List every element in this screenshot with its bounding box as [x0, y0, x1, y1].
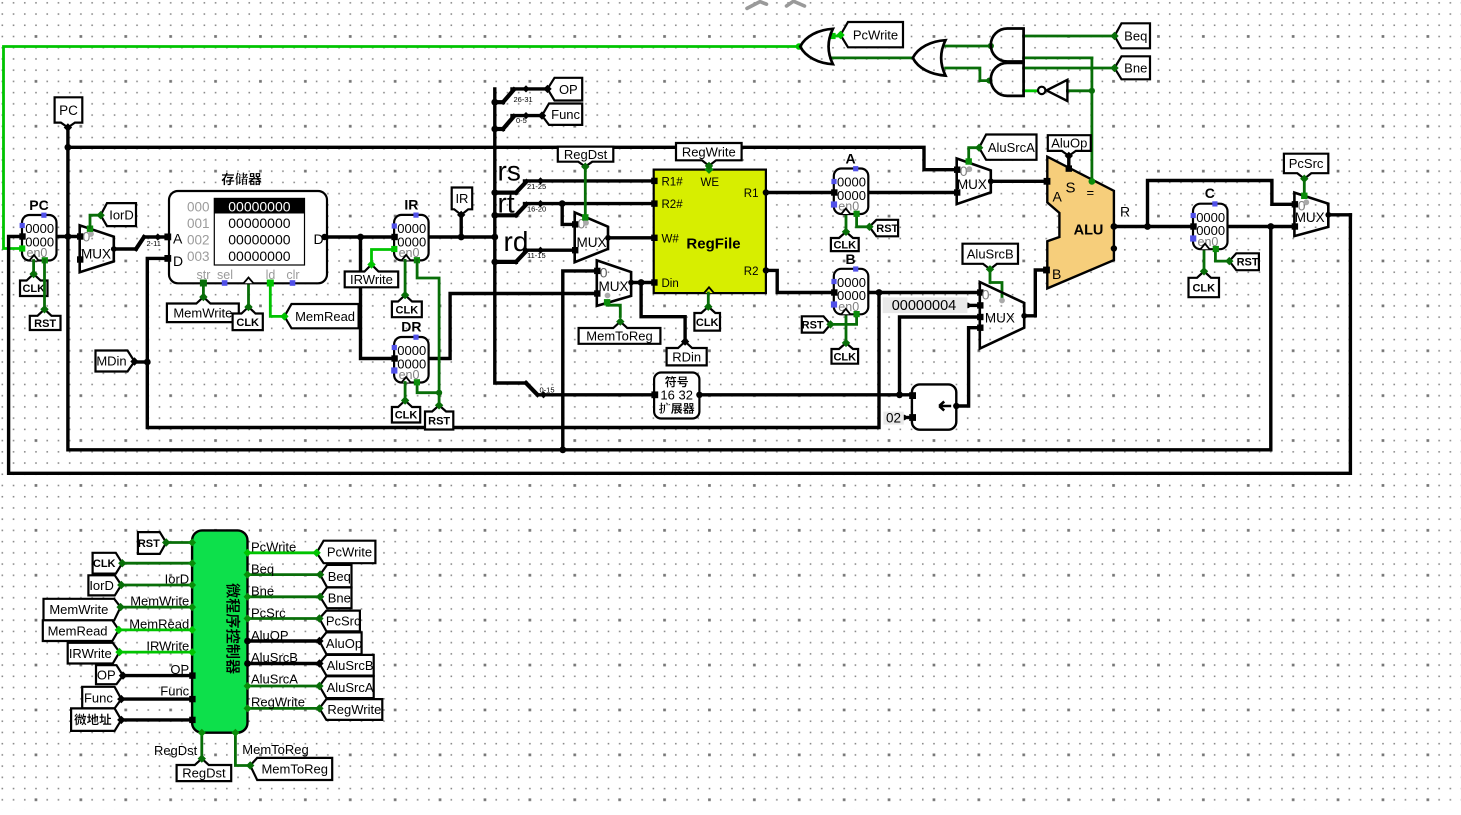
sign extender 符号16 32扩展器	[654, 373, 699, 419]
wire MemToReg select	[607, 303, 620, 317]
wire PcSrc mux output	[1328, 213, 1350, 216]
svg-text:AluSrcA: AluSrcA	[327, 680, 374, 695]
tunnel 微地址 controller	[71, 708, 121, 731]
svg-text:MemRead: MemRead	[129, 616, 189, 631]
wire splitter 21-25 rs to RegFile R1#	[491, 189, 498, 196]
wire MDin tunnel stub	[135, 360, 147, 363]
tunnel AluSrcA controller right	[319, 676, 373, 698]
tunnel IRWrite controller	[68, 643, 120, 664]
svg-text:D: D	[173, 253, 183, 269]
svg-text:Func: Func	[160, 684, 189, 699]
tunnel RST for C	[1229, 253, 1259, 270]
svg-text:RST: RST	[34, 318, 56, 330]
svg-text:00000000: 00000000	[228, 198, 291, 214]
svg-text:00000004: 00000004	[892, 298, 957, 314]
svg-text:MemWrite: MemWrite	[49, 602, 108, 617]
wire Beq to AND1	[1024, 35, 1115, 38]
tunnel Func controller	[82, 687, 121, 709]
svg-text:RegDst: RegDst	[564, 147, 608, 162]
svg-text:00000000: 00000000	[228, 215, 291, 231]
wire PcWrite enable (bright green) from OR gate to PC en	[4, 47, 800, 249]
svg-text:AluSrcA: AluSrcA	[988, 140, 1035, 155]
svg-text:Beq: Beq	[251, 562, 274, 577]
gate OR1 pcwrite-or-branch	[800, 29, 833, 64]
wire DR output to MemToReg mux input1	[429, 294, 597, 359]
svg-text:2-11: 2-11	[147, 239, 161, 248]
svg-text:WE: WE	[701, 177, 720, 189]
mux IorD	[80, 225, 114, 272]
svg-text:MemWrite: MemWrite	[130, 594, 189, 609]
wire PC output to IorD mux	[57, 235, 81, 238]
svg-text:AluOP: AluOP	[251, 628, 289, 643]
tunnel RegWrite	[676, 143, 742, 166]
gate OR2 branch-or	[913, 40, 946, 75]
tunnel IR small	[452, 188, 473, 215]
wire IRWrite to IR enable (bright)	[372, 250, 395, 265]
wire PcSrc select	[1303, 179, 1306, 195]
memory 存储器	[169, 191, 327, 283]
svg-text:RegFile: RegFile	[686, 236, 740, 253]
wire B register clock and reset	[845, 314, 848, 343]
tunnel CLK under A	[831, 232, 859, 251]
tunnel MemRead	[284, 304, 358, 328]
mux AluSrcA	[957, 159, 991, 205]
svg-text:Func: Func	[551, 107, 580, 122]
svg-text:21-25: 21-25	[527, 182, 546, 191]
wire equal to AND1 input	[1024, 57, 1092, 60]
svg-text:CLK: CLK	[236, 317, 259, 329]
tunnel RDin	[667, 342, 707, 366]
tunnel MemRead controller	[43, 620, 119, 641]
svg-text:00000000: 00000000	[228, 248, 291, 264]
wire PC clk rst	[32, 261, 35, 275]
svg-text:A: A	[173, 231, 183, 247]
svg-text:CLK: CLK	[696, 317, 719, 329]
wire splitter 0-5 to Func tunnel	[491, 126, 498, 133]
svg-text:MUX: MUX	[577, 235, 607, 250]
register A	[834, 169, 869, 215]
wire PC value top rail to AluSrcA mux input 0	[68, 147, 957, 169]
tunnel CLK under DR	[392, 401, 420, 423]
tunnel AluOp	[1048, 135, 1091, 156]
svg-text:A: A	[845, 151, 855, 167]
svg-text:002: 002	[187, 233, 210, 248]
svg-text:Beq: Beq	[1124, 28, 1147, 43]
tunnel IorD controller	[88, 575, 121, 595]
svg-text:rt: rt	[498, 188, 515, 219]
svg-text:PcSrc: PcSrc	[251, 606, 286, 621]
svg-text:AluSrcB: AluSrcB	[251, 650, 298, 665]
tunnel RegWrite controller right	[319, 699, 382, 720]
svg-text:A: A	[1053, 189, 1063, 205]
wire splitter 26-31 to OP tunnel	[491, 99, 498, 106]
svg-text:Bne: Bne	[328, 590, 351, 605]
controller 微程序控制器	[192, 530, 247, 732]
wire ALU R output to C register and PcSrc mux input0	[1114, 225, 1193, 228]
register C	[1193, 204, 1228, 250]
wire controller left inputs	[166, 541, 192, 544]
mux AluSrcB	[980, 282, 1024, 349]
tunnel Beq top	[1115, 23, 1151, 48]
tunnel IorD	[101, 203, 136, 226]
svg-text:R: R	[1120, 204, 1130, 220]
svg-text:R2: R2	[744, 266, 759, 278]
svg-text:CLK: CLK	[1192, 282, 1215, 294]
wire C register clock and reset	[1203, 249, 1206, 271]
svg-text:PcWrite: PcWrite	[251, 540, 296, 555]
register B	[834, 269, 869, 315]
wire MemToReg mux input0 from y=450 rail	[563, 271, 597, 450]
svg-text:IR: IR	[455, 191, 468, 206]
svg-text:AluSrcB: AluSrcB	[967, 246, 1014, 261]
tunnel PC	[55, 97, 83, 127]
wire memory clock to CLK	[247, 282, 250, 308]
svg-text:000: 000	[187, 199, 210, 214]
svg-text:AluSrcA: AluSrcA	[251, 672, 298, 687]
wire shifter output to AluSrcB mux input3	[956, 328, 980, 406]
tunnel MDin	[96, 351, 135, 372]
svg-text:0-5: 0-5	[516, 116, 527, 125]
wire memory D input from B-register rail	[147, 258, 879, 427]
wire controller right outputs	[248, 551, 317, 554]
svg-text:RegWrite: RegWrite	[682, 144, 736, 159]
wire OR2 output to OR1 input	[831, 57, 912, 60]
wire RegDst mux output to W#	[608, 236, 654, 239]
svg-text:IorD: IorD	[109, 207, 134, 222]
svg-text:MemRead: MemRead	[48, 623, 108, 638]
svg-text:CLK: CLK	[395, 410, 418, 422]
svg-text:B: B	[1052, 266, 1061, 282]
tunnel MemToReg controller bottom	[250, 758, 332, 780]
wire memory ld to MemRead (bright)	[270, 283, 285, 316]
wire C output to PcSrc mux input1 and down to y=450 rail	[1228, 225, 1295, 228]
wire constant 00000004 to AluSrcB mux input1	[967, 304, 979, 307]
svg-text:OP: OP	[559, 82, 578, 97]
tunnel AluOp controller right	[319, 632, 361, 654]
tunnel PcSrc controller right	[319, 611, 360, 632]
tunnel PcWrite controller right	[317, 541, 376, 564]
svg-text:IRWrite: IRWrite	[350, 272, 393, 287]
svg-text:CLK: CLK	[833, 351, 856, 363]
tunnel IRWrite	[345, 265, 399, 288]
svg-text:RST: RST	[1237, 257, 1259, 269]
svg-text:OP: OP	[97, 667, 116, 682]
svg-text:CLK: CLK	[396, 304, 419, 316]
mux RegDst	[575, 212, 608, 262]
svg-text:R1#: R1#	[662, 177, 684, 189]
svg-text:AluOp: AluOp	[1051, 136, 1087, 151]
svg-text:MUX: MUX	[1295, 210, 1325, 225]
wire RegFile R1 to A register	[766, 191, 834, 194]
svg-text:MemRead: MemRead	[295, 309, 355, 324]
wire AluOp to ALU S	[1067, 155, 1070, 169]
svg-text:C: C	[1205, 185, 1215, 201]
svg-text:0: 0	[982, 287, 990, 303]
wire AND2 output to OR2	[946, 68, 990, 81]
svg-text:RegWrite: RegWrite	[251, 694, 305, 709]
tunnel Func	[542, 104, 582, 125]
wire AND1 output to OR2	[946, 45, 991, 48]
wire constant 02 to shifter	[904, 416, 912, 419]
tunnel OP	[548, 78, 583, 101]
tunnel CLK under C	[1189, 271, 1220, 297]
constant 00000004	[883, 297, 968, 313]
svg-text:OP: OP	[170, 662, 189, 677]
tunnel MemToReg	[579, 322, 661, 344]
junction dots	[65, 144, 72, 151]
svg-text:MUX: MUX	[957, 177, 987, 192]
svg-text:MemWrite: MemWrite	[173, 305, 232, 320]
svg-text:=: =	[1087, 185, 1095, 200]
wire PC tunnel stub	[66, 128, 69, 148]
svg-text:PcWrite: PcWrite	[327, 545, 372, 560]
wire splitter 16-20 rt to RegFile R2# and RegDst mux	[491, 212, 498, 219]
tunnel CLK under PC	[20, 274, 48, 296]
tunnel RST for B	[802, 316, 831, 332]
constant 02	[883, 412, 903, 425]
regfile RegFile	[654, 170, 766, 294]
svg-text:clr: clr	[286, 268, 299, 282]
tunnel RST under PC	[30, 309, 61, 330]
svg-text:RegDst: RegDst	[182, 766, 226, 781]
svg-text:26-31: 26-31	[514, 95, 533, 104]
tunnel CLK under B	[832, 343, 859, 364]
svg-text:S: S	[1066, 180, 1076, 197]
wire IR/DR shared reset	[417, 260, 439, 405]
svg-text:rs: rs	[498, 156, 521, 187]
wire RegFile clock	[707, 293, 710, 307]
wire RegDst select	[584, 167, 587, 217]
wire Bne to AND2	[1024, 67, 1115, 70]
svg-text:PcWrite: PcWrite	[853, 27, 898, 42]
svg-text:RDin: RDin	[672, 349, 701, 364]
tunnel AluSrcB controller right	[319, 655, 373, 676]
svg-text:CLK: CLK	[93, 558, 116, 570]
wire IorD select	[90, 215, 101, 227]
grey mark 1	[747, 2, 767, 9]
tunnel RST controller	[138, 532, 166, 554]
gate AND1 beq-and-equal	[991, 29, 1024, 62]
svg-text:IorD: IorD	[165, 572, 190, 587]
wire A output to AluSrcA mux input1	[868, 191, 956, 194]
svg-text:CLK: CLK	[833, 240, 856, 252]
wire NOT output to AND2 (bright)	[1024, 89, 1038, 92]
wire PcSrc mux output feedback to PC input	[9, 215, 1351, 474]
wire sign extender output to AluSrcB mux input2 and shifter	[699, 393, 912, 396]
svg-text:Din: Din	[662, 278, 679, 290]
svg-text:RegDst: RegDst	[154, 743, 198, 758]
svg-text:MUX: MUX	[81, 247, 111, 262]
wire B output to AluSrcB mux input0	[868, 291, 980, 294]
svg-text:Bne: Bne	[251, 583, 274, 598]
svg-text:IRWrite: IRWrite	[69, 646, 112, 661]
wire PcWrite tunnel stub (bright)	[831, 35, 841, 38]
svg-text:CLK: CLK	[22, 283, 45, 295]
tunnel Bne controller right	[320, 587, 351, 608]
wire AluSrcB select	[990, 270, 1002, 299]
svg-text:Func: Func	[84, 690, 113, 705]
tunnel Beq controller right	[320, 565, 351, 588]
svg-text:MemToReg: MemToReg	[586, 329, 652, 344]
register PC	[22, 215, 57, 261]
wire IR output to splitter bus	[429, 235, 495, 238]
svg-text:Bne: Bne	[1124, 60, 1147, 75]
svg-text:PcSrc: PcSrc	[1289, 156, 1324, 171]
svg-text:AluSrcB: AluSrcB	[327, 658, 374, 673]
tunnel MemWrite controller	[44, 599, 121, 621]
svg-text:00000000: 00000000	[228, 232, 291, 248]
svg-text:IRWrite: IRWrite	[146, 639, 189, 654]
tunnel CLK under RegFile	[694, 307, 720, 331]
shifter shl	[912, 384, 956, 429]
svg-text:PC: PC	[29, 197, 48, 213]
svg-text:IorD: IorD	[89, 578, 114, 593]
svg-text:MDin: MDin	[96, 354, 126, 369]
wire AluSrcA mux output to ALU A	[991, 180, 1044, 183]
svg-text:003: 003	[187, 249, 210, 264]
svg-text:PcSrc: PcSrc	[326, 614, 361, 629]
svg-text:0-15: 0-15	[540, 385, 555, 394]
svg-text:ALU: ALU	[1074, 223, 1104, 239]
wire PC vertical + lower rail y=450	[68, 147, 1271, 450]
wire NOT input from equal line	[1067, 89, 1092, 92]
svg-text:11-15: 11-15	[527, 251, 546, 260]
svg-text:02: 02	[886, 410, 901, 425]
tunnel RST under DR	[425, 405, 453, 429]
svg-text:PC: PC	[59, 103, 78, 118]
svg-text:MemToReg: MemToReg	[242, 742, 308, 757]
svg-text:RST: RST	[138, 538, 160, 550]
svg-text:B: B	[845, 251, 855, 267]
svg-text:rd: rd	[504, 226, 529, 257]
wire instruction bus vertical to 0-15 splitter and sign extender	[495, 89, 526, 383]
svg-text:MUX: MUX	[985, 311, 1015, 326]
wire RegFile R2 to B register	[766, 270, 834, 292]
wire controller RegDst output	[200, 733, 203, 759]
register IR	[394, 215, 429, 261]
tunnel MemWrite	[167, 297, 239, 322]
svg-text:MUX: MUX	[599, 279, 629, 294]
tunnel Bne top	[1115, 56, 1151, 79]
svg-text:MemToReg: MemToReg	[261, 762, 327, 777]
tunnel OP controller	[96, 665, 123, 684]
wire MemToReg mux output to Din and RDin	[631, 281, 654, 284]
wire AluSrcB mux output to ALU B	[1024, 270, 1044, 316]
tunnel RegDst controller bottom	[177, 759, 232, 782]
wire DR clock	[404, 383, 407, 401]
svg-text:16 32: 16 32	[660, 388, 693, 403]
wire IorD mux output via splitter 2-11 to memory A	[114, 247, 136, 250]
wire controller MemToReg output	[235, 733, 250, 766]
wire splitter 11-15 rd to RegDst mux	[491, 259, 498, 266]
wire ALU equal output up to branch gates	[1091, 58, 1094, 181]
wire A register clock and reset	[845, 214, 848, 232]
tunnel AluSrcB	[963, 244, 1019, 270]
wire IR clock	[404, 260, 407, 295]
tunnel PcWrite top	[841, 22, 904, 47]
gate NOT inverter	[1047, 80, 1068, 101]
svg-text:W#: W#	[662, 233, 680, 245]
wire IR tunnel stub	[460, 215, 463, 237]
svg-text:R1: R1	[744, 188, 759, 200]
svg-text:RST: RST	[428, 415, 450, 427]
tunnel CLK under memory	[233, 307, 263, 330]
svg-text:RegWrite: RegWrite	[327, 702, 381, 717]
tunnel CLK under IR	[392, 295, 422, 317]
wire memory D output to IR and DR	[325, 235, 395, 238]
svg-text:sel: sel	[217, 268, 233, 282]
grey mark 2	[787, 1, 805, 6]
svg-text:R2#: R2#	[662, 199, 684, 211]
tunnel CLK controller	[93, 553, 123, 574]
register DR	[394, 337, 429, 383]
svg-text:RST: RST	[802, 319, 824, 331]
tunnel PcSrc	[1284, 154, 1328, 179]
svg-text:DR: DR	[401, 319, 421, 335]
wire memory str to MemWrite	[202, 283, 205, 297]
tunnel RegDst	[558, 147, 614, 167]
svg-text:RST: RST	[876, 223, 898, 235]
gate AND2 bne-and-notequal	[991, 63, 1024, 96]
svg-text:AluOp: AluOp	[326, 636, 362, 651]
tunnel AluSrcA	[979, 135, 1036, 160]
svg-text:16-20: 16-20	[527, 205, 546, 214]
wire AluSrcA select	[969, 148, 979, 160]
mux MemToReg	[597, 260, 631, 306]
svg-text:001: 001	[187, 216, 210, 231]
alu ALU	[1047, 157, 1114, 289]
svg-text:Beq: Beq	[328, 569, 351, 584]
mux PcSrc	[1294, 193, 1328, 237]
svg-text:IR: IR	[404, 197, 418, 213]
tunnel RST for A	[869, 220, 898, 237]
